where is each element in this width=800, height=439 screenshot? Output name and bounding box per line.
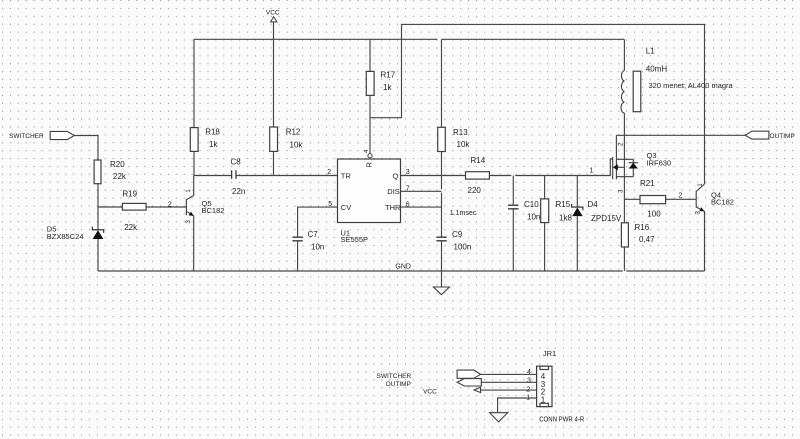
svg-text:OUTIMP: OUTIMP bbox=[386, 381, 411, 388]
svg-text:VCC: VCC bbox=[423, 389, 437, 396]
svg-text:R13: R13 bbox=[453, 128, 468, 137]
svg-text:C10: C10 bbox=[524, 200, 539, 209]
svg-text:CV: CV bbox=[341, 203, 351, 212]
svg-text:22k: 22k bbox=[124, 223, 138, 232]
svg-text:R12: R12 bbox=[286, 128, 301, 137]
svg-text:40mH: 40mH bbox=[646, 64, 668, 73]
svg-text:10n: 10n bbox=[527, 212, 540, 221]
svg-text:1k: 1k bbox=[209, 140, 218, 149]
svg-text:22n: 22n bbox=[232, 187, 245, 196]
svg-text:3: 3 bbox=[406, 169, 410, 176]
svg-text:IRF630: IRF630 bbox=[647, 159, 672, 168]
svg-text:ZPD15V: ZPD15V bbox=[591, 214, 622, 223]
svg-text:C9: C9 bbox=[452, 230, 463, 239]
svg-text:R16: R16 bbox=[635, 223, 650, 232]
svg-text:BZX85C24: BZX85C24 bbox=[47, 232, 84, 241]
svg-text:DIS: DIS bbox=[387, 187, 400, 196]
svg-text:THR: THR bbox=[385, 203, 401, 212]
svg-text:Q: Q bbox=[393, 171, 399, 180]
svg-text:R21: R21 bbox=[640, 179, 655, 188]
svg-text:7: 7 bbox=[406, 185, 410, 192]
svg-text:VCC: VCC bbox=[266, 9, 280, 16]
svg-text:100: 100 bbox=[647, 210, 661, 219]
svg-text:1: 1 bbox=[541, 395, 546, 404]
svg-text:6: 6 bbox=[406, 201, 410, 208]
svg-text:2: 2 bbox=[679, 193, 683, 200]
svg-text:SWITCHER: SWITCHER bbox=[377, 373, 412, 380]
svg-text:220: 220 bbox=[468, 186, 482, 195]
svg-text:1: 1 bbox=[590, 168, 594, 175]
svg-text:10k: 10k bbox=[457, 140, 471, 149]
svg-text:1k8: 1k8 bbox=[559, 214, 572, 223]
svg-text:L1: L1 bbox=[646, 47, 655, 56]
svg-text:BC182: BC182 bbox=[202, 206, 225, 215]
svg-text:1: 1 bbox=[526, 395, 530, 402]
svg-text:R15: R15 bbox=[556, 200, 571, 209]
svg-text:BC182: BC182 bbox=[711, 198, 734, 207]
svg-text:OUTIMP: OUTIMP bbox=[770, 133, 795, 140]
svg-text:R20: R20 bbox=[110, 160, 125, 169]
svg-text:1.1msec: 1.1msec bbox=[450, 210, 477, 217]
svg-text:C8: C8 bbox=[231, 158, 242, 167]
svg-text:1k: 1k bbox=[383, 83, 392, 92]
svg-text:CONN PWR 4-R: CONN PWR 4-R bbox=[539, 415, 584, 424]
svg-text:R14: R14 bbox=[471, 156, 486, 165]
svg-text:2: 2 bbox=[327, 169, 331, 176]
svg-text:R18: R18 bbox=[205, 128, 220, 137]
svg-text:2: 2 bbox=[526, 386, 530, 393]
svg-text:4: 4 bbox=[527, 369, 531, 376]
svg-text:22k: 22k bbox=[113, 172, 127, 181]
svg-text:SE555P: SE555P bbox=[341, 235, 369, 244]
svg-text:10k: 10k bbox=[290, 141, 304, 150]
svg-text:0,47: 0,47 bbox=[639, 235, 655, 244]
svg-text:JR1: JR1 bbox=[543, 349, 556, 358]
svg-text:C7: C7 bbox=[308, 230, 319, 239]
svg-text:320 menet; AL400 magra: 320 menet; AL400 magra bbox=[649, 81, 734, 90]
svg-text:R19: R19 bbox=[122, 190, 137, 199]
svg-text:R: R bbox=[365, 162, 374, 168]
svg-text:D4: D4 bbox=[588, 200, 599, 209]
svg-text:TR: TR bbox=[341, 171, 352, 180]
svg-text:5: 5 bbox=[328, 201, 332, 208]
svg-text:100n: 100n bbox=[454, 243, 472, 252]
svg-text:2: 2 bbox=[168, 202, 172, 209]
svg-text:R17: R17 bbox=[381, 71, 396, 80]
svg-text:SWITCHER: SWITCHER bbox=[9, 133, 44, 140]
svg-text:GND: GND bbox=[395, 264, 411, 271]
svg-text:3: 3 bbox=[527, 378, 531, 385]
svg-text:10n: 10n bbox=[311, 243, 324, 252]
